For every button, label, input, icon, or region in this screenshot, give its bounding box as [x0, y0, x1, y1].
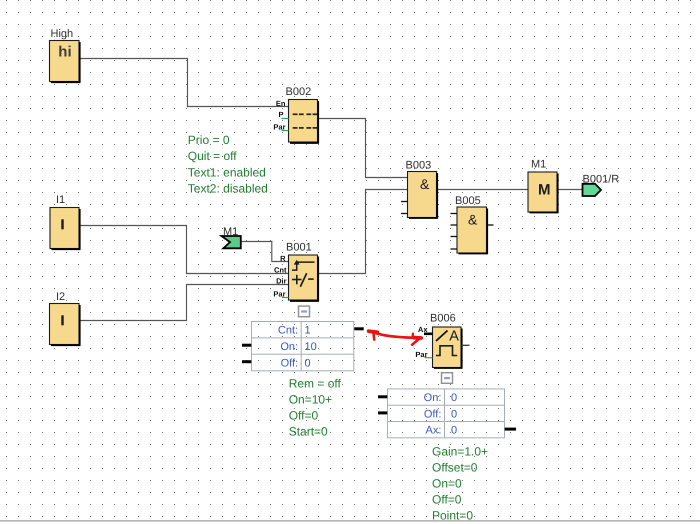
- parameter table of B006: [388, 389, 505, 438]
- wire B003 output to M1 block: [437, 189, 529, 191]
- table tick Cnt right: [354, 327, 363, 330]
- svg-text:Quit = off: Quit = off: [188, 149, 237, 163]
- svg-text:I1: I1: [56, 194, 65, 206]
- svg-text:Dir: Dir: [276, 277, 287, 286]
- input block High (hi): [50, 41, 81, 83]
- comment text B002 parameters: [188, 133, 268, 196]
- AND block B003: [408, 172, 438, 219]
- table tick On left: [242, 344, 251, 347]
- svg-text:B001/R: B001/R: [583, 173, 620, 185]
- svg-text:Off:: Off:: [281, 357, 299, 369]
- svg-text:M: M: [538, 181, 551, 198]
- svg-text:Start=0: Start=0: [289, 424, 328, 438]
- wire hi output to B002 En: [79, 59, 289, 107]
- svg-text:Text1: enabled: Text1: enabled: [188, 165, 266, 179]
- svg-text:B002: B002: [286, 86, 312, 98]
- output marker block M1: [528, 172, 558, 213]
- svg-text:B005: B005: [455, 195, 481, 207]
- collapse button of B001: [299, 306, 310, 317]
- input block I2: [50, 304, 81, 346]
- flag M1 (input marker): [222, 236, 241, 248]
- svg-text:R: R: [280, 254, 286, 263]
- svg-text:Off=0: Off=0: [289, 408, 319, 422]
- svg-text:On:: On:: [280, 341, 298, 353]
- pin Par stub: [282, 130, 289, 132]
- wire M1 block to B001/R flag: [557, 189, 583, 191]
- B003 input stub 3: [401, 201, 408, 203]
- svg-text:M1: M1: [531, 159, 546, 171]
- pin Ax stub: [424, 332, 433, 335]
- red annotation arrow: [368, 331, 421, 345]
- svg-text:En: En: [276, 99, 286, 108]
- svg-text:On:: On:: [424, 392, 442, 404]
- analog threshold block B006: [433, 327, 463, 369]
- svg-text:High: High: [51, 28, 74, 40]
- parameter table of B001: [252, 322, 354, 371]
- B005 output stub: [488, 224, 494, 226]
- table tick Off left: [242, 360, 251, 363]
- svg-text:hi: hi: [58, 43, 71, 60]
- flag B001/R (reset reference): [583, 184, 602, 196]
- B005 input stub 4: [451, 248, 458, 250]
- pin Par stub: [425, 357, 433, 359]
- collapse button of B006: [442, 373, 453, 384]
- svg-text:Text2: disabled: Text2: disabled: [188, 182, 268, 196]
- svg-text:0: 0: [451, 425, 457, 437]
- svg-text:M1: M1: [223, 226, 238, 238]
- wire I2 output to B001 Dir: [79, 285, 289, 321]
- B006 output stub: [462, 344, 470, 346]
- svg-text:Cnt: Cnt: [274, 266, 287, 275]
- table tick On left: [378, 395, 387, 398]
- svg-text:Offset=0: Offset=0: [432, 461, 478, 475]
- svg-text:0: 0: [305, 357, 311, 369]
- svg-text:On=10+: On=10+: [289, 392, 332, 406]
- svg-text:B006: B006: [430, 313, 456, 325]
- pin Par stub: [282, 297, 289, 299]
- svg-text:&: &: [468, 212, 478, 228]
- svg-text:Off=0: Off=0: [432, 493, 462, 507]
- svg-text:Cnt:: Cnt:: [278, 325, 298, 337]
- svg-text:1: 1: [305, 325, 311, 337]
- svg-text:0: 0: [451, 392, 457, 404]
- svg-text:Prio = 0: Prio = 0: [188, 133, 230, 147]
- wire M1 flag to B001 R: [241, 242, 289, 262]
- svg-text:10: 10: [305, 341, 317, 353]
- up/down counter block B001: [289, 255, 319, 302]
- svg-text:Ax:: Ax:: [425, 425, 441, 437]
- svg-text:Rem = off: Rem = off: [289, 376, 342, 390]
- B003 input stub 4: [401, 213, 408, 215]
- svg-text:&: &: [420, 176, 430, 192]
- AND block B005: [457, 207, 488, 254]
- comment text B006 parameters: [432, 445, 488, 523]
- wire B001 output to B003 input 2: [318, 190, 408, 274]
- svg-text:B001: B001: [286, 242, 312, 254]
- svg-text:Gain=1.0+: Gain=1.0+: [432, 445, 488, 459]
- svg-text:I2: I2: [56, 291, 65, 303]
- wire I1 output to B001 Cnt: [79, 226, 289, 274]
- B005 input stub 1: [451, 213, 458, 215]
- svg-text:On=0: On=0: [432, 477, 462, 491]
- comment text B001 parameters: [289, 376, 342, 438]
- svg-text:Point=0: Point=0: [432, 509, 473, 523]
- table tick Off left: [378, 411, 387, 414]
- B005 input stub 2: [451, 224, 458, 226]
- svg-text:P: P: [278, 110, 283, 119]
- message text block B002: [289, 100, 319, 144]
- svg-text:B003: B003: [406, 160, 432, 172]
- svg-text:Off:: Off:: [424, 408, 442, 420]
- svg-text:0: 0: [451, 408, 457, 420]
- pin P stub: [282, 118, 289, 120]
- B005 input stub 3: [451, 236, 458, 238]
- svg-text:A: A: [449, 329, 459, 345]
- input block I1: [50, 208, 80, 250]
- table tick Ax right: [505, 428, 516, 431]
- wire B002 output to B003 input 1: [318, 119, 408, 178]
